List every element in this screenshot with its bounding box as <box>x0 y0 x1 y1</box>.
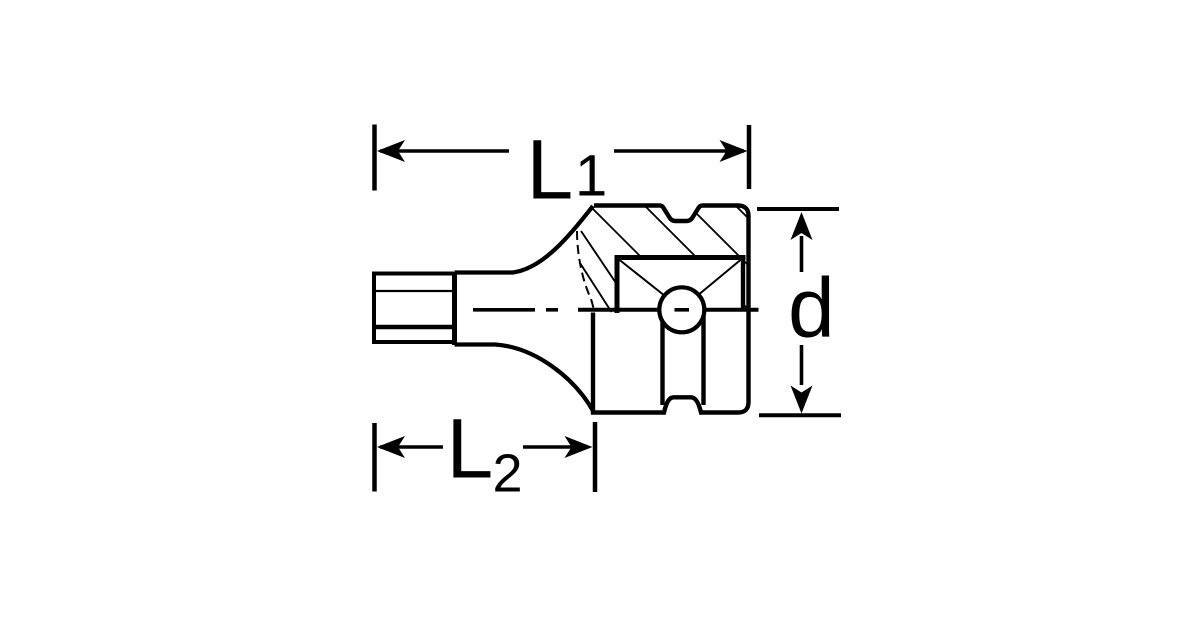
dimension L1 right dimension line <box>614 149 744 153</box>
inner bore cone line upper <box>581 231 617 285</box>
chamfer diagonal right <box>697 260 741 297</box>
hatching of sectioned area <box>540 10 790 406</box>
svg-text:d: d <box>788 260 835 354</box>
drive hole lower left vertical <box>660 312 664 405</box>
dimension L1 left arrowhead <box>377 140 405 162</box>
square drive hole top line <box>615 255 746 260</box>
svg-text:L: L <box>447 401 494 495</box>
square drive hole right edge <box>741 258 745 311</box>
svg-text:2: 2 <box>493 444 523 504</box>
hex bit end vertical line <box>452 272 457 345</box>
dimension d bottom extension line <box>759 413 841 417</box>
dimension d lower arrowhead <box>791 386 813 414</box>
svg-text:L: L <box>527 123 574 217</box>
chamfer diagonal left <box>619 260 665 297</box>
inner bore cone line lower <box>580 263 612 312</box>
detent ball <box>659 287 704 332</box>
dimension L2 left arrowhead <box>377 436 405 458</box>
dimension L2 left extension line <box>372 423 377 492</box>
drive hole lower right vertical <box>701 312 705 405</box>
centerline short dash <box>546 308 558 312</box>
centerline dash inside ball <box>675 308 690 312</box>
dimension L1 right arrowhead <box>720 140 748 162</box>
dimension d upper arrowhead <box>791 212 813 240</box>
hex bit tip outline <box>374 272 454 345</box>
dimension d lower dimension line <box>800 345 804 385</box>
hex bit flat edge thick line <box>375 325 453 330</box>
dimension L2 right extension line <box>593 422 598 492</box>
socket body outline <box>593 206 749 413</box>
shank top profile curve <box>455 206 594 273</box>
square drive hole left edge <box>615 256 620 313</box>
dimension L2 right arrowhead <box>565 436 593 458</box>
dimension L1 left dimension line <box>380 149 509 153</box>
dimension L2 left dimension line <box>380 445 443 449</box>
dimension L2 right dimension line <box>523 445 586 449</box>
svg-text:1: 1 <box>575 144 607 209</box>
hex bit flat edge thin line <box>375 290 453 292</box>
dimension d upper dimension line <box>800 236 804 272</box>
shank bottom profile curve <box>455 345 595 413</box>
hidden bore dashed curve <box>577 231 594 310</box>
centerline through body <box>578 308 759 312</box>
centerline left dash <box>473 308 535 312</box>
dimension L1 left extension line <box>372 125 377 191</box>
dimension L1 right extension line <box>747 125 752 189</box>
dimension d top extension line <box>757 207 839 211</box>
